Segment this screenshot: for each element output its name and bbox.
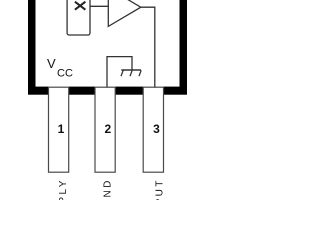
svg-text:CC: CC <box>57 67 73 79</box>
svg-text:2: 2 <box>105 122 112 136</box>
svg-text:OUTPUT: OUTPUT <box>155 178 166 200</box>
svg-text:V: V <box>47 56 56 71</box>
svg-text:SUPPLY: SUPPLY <box>58 178 69 200</box>
svg-text:3: 3 <box>153 122 160 136</box>
svg-text:1: 1 <box>58 122 65 136</box>
svg-text:GND: GND <box>103 178 114 200</box>
